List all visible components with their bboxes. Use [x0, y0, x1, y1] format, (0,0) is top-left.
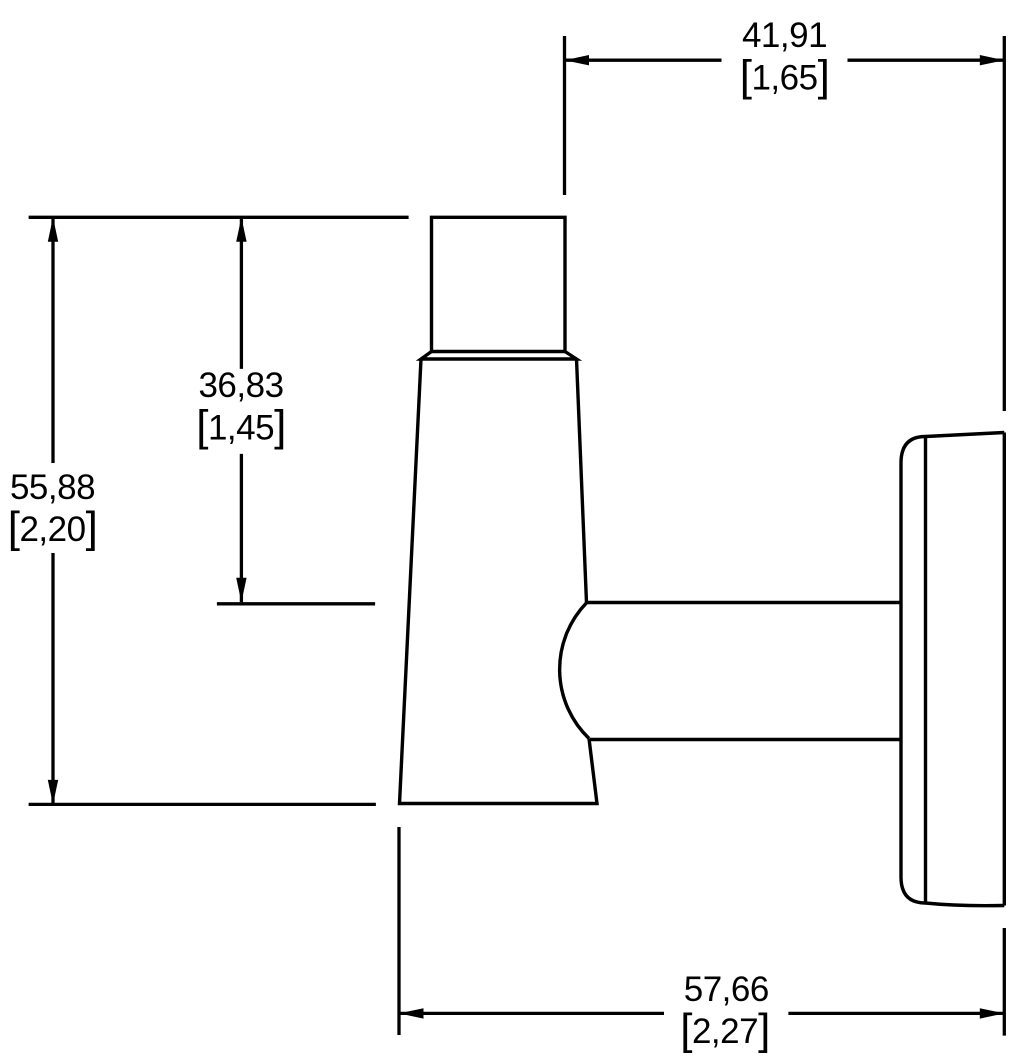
- svg-text:57,66: 57,66: [684, 970, 769, 1009]
- svg-text:36,83: 36,83: [198, 366, 283, 405]
- svg-text:55,88: 55,88: [10, 468, 95, 507]
- svg-text:[2,20]: [2,20]: [8, 503, 98, 552]
- svg-text:41,91: 41,91: [742, 16, 827, 55]
- svg-text:[2,27]: [2,27]: [680, 1005, 770, 1054]
- svg-text:[1,65]: [1,65]: [740, 52, 830, 101]
- svg-text:[1,45]: [1,45]: [196, 401, 286, 450]
